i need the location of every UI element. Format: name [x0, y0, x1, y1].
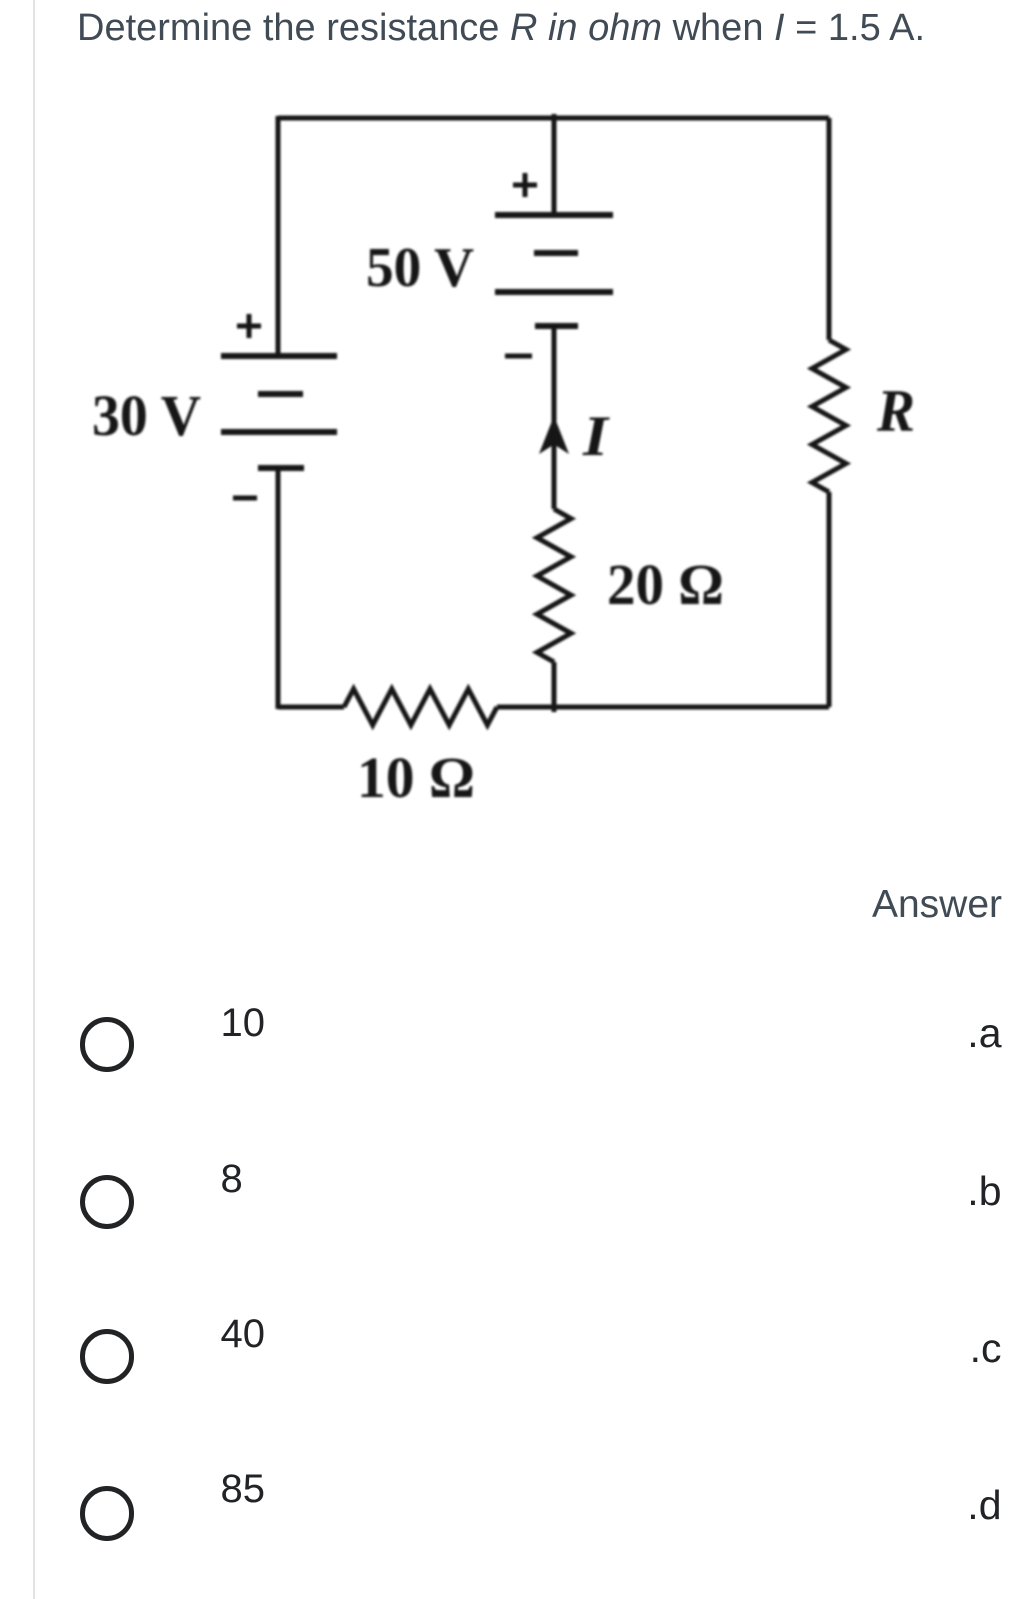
wire: left branch lower lead	[276, 468, 281, 709]
label - (battery V1 negative)	[233, 496, 257, 501]
resistor R1 R	[812, 340, 846, 492]
label + (battery V1 positive)	[237, 314, 261, 338]
svg-text:50 V: 50 V	[366, 237, 474, 299]
wire: left branch upper lead	[276, 116, 281, 356]
wire: middle branch lower lead to node A	[552, 662, 557, 712]
current label I	[582, 405, 610, 468]
wire: top bus from left branch to right branch	[278, 116, 829, 121]
value label 20 ohm	[607, 552, 724, 617]
wire: bottom bus right segment	[497, 705, 829, 710]
value label 10 ohm	[357, 745, 475, 810]
current arrow I	[539, 416, 569, 454]
component label R	[876, 378, 915, 444]
value label 30 V	[92, 383, 201, 448]
svg-text:20 Ω: 20 Ω	[607, 552, 724, 617]
radio option a	[80, 1017, 135, 1072]
svg-text:30 V: 30 V	[92, 383, 201, 448]
wire: right branch upper lead	[827, 118, 832, 340]
wire: bottom bus left segment	[278, 705, 344, 710]
label + (battery V2 positive)	[513, 173, 537, 197]
svg-text:R: R	[876, 378, 915, 444]
radio option c	[80, 1329, 135, 1384]
svg-text:I: I	[582, 405, 610, 468]
Answer header	[872, 883, 1002, 927]
wire: right branch lower lead	[827, 492, 832, 707]
resistor R3 10 ohm	[344, 689, 497, 725]
wire: middle branch upper lead	[552, 114, 557, 215]
battery V1 30 V	[221, 356, 337, 468]
left page rule	[33, 0, 35, 1599]
svg-text:10 Ω: 10 Ω	[357, 745, 475, 810]
value label 50 V	[366, 237, 474, 299]
battery V2 50 V	[495, 215, 613, 326]
label - (battery V2 negative)	[505, 354, 532, 359]
question title	[77, 7, 925, 50]
radio option b	[80, 1175, 135, 1230]
radio option d	[80, 1486, 135, 1541]
resistor R2 20 ohm	[537, 509, 571, 662]
wire: middle branch lead from battery V2 to resistor R2	[552, 326, 557, 509]
